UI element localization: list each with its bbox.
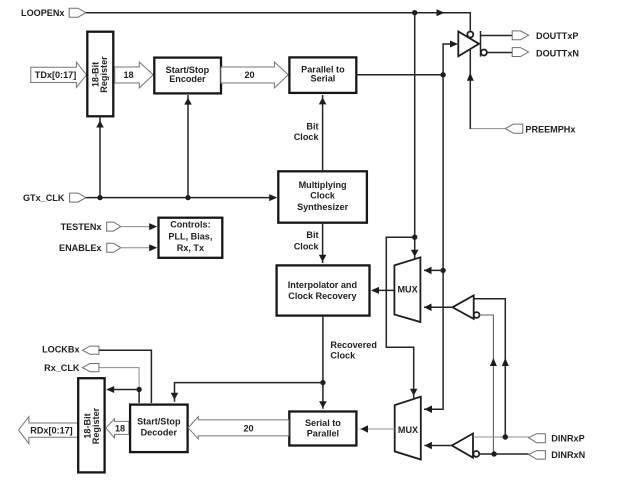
pin DOUTTxP bbox=[512, 31, 578, 41]
pin TESTENx bbox=[61, 222, 158, 232]
wire upper receiver output to mux bbox=[424, 304, 453, 312]
svg-text:Clock: Clock bbox=[294, 132, 320, 142]
wire recovered clock net bbox=[171, 317, 377, 409]
svg-text:DINRxP: DINRxP bbox=[551, 433, 584, 443]
wire DINRxN net bbox=[479, 451, 528, 456]
wire bit clock (MCS to interpolator) bbox=[294, 224, 327, 263]
svg-text:20: 20 bbox=[243, 423, 253, 433]
svg-text:Serial to: Serial to bbox=[305, 418, 341, 428]
svg-text:Parallel: Parallel bbox=[307, 429, 339, 439]
svg-text:LOCKBx: LOCKBx bbox=[42, 345, 79, 355]
pin DINRxP bbox=[529, 433, 585, 443]
wire upper mux output to interpolator bbox=[371, 287, 394, 294]
register R1 18-Bit Register (transmit) bbox=[87, 32, 113, 117]
svg-text:Bit: Bit bbox=[306, 230, 318, 240]
svg-text:ENABLEx: ENABLEx bbox=[59, 243, 101, 253]
wire DINRxN riser to upper receiver bbox=[480, 315, 497, 454]
svg-text:DINRxN: DINRxN bbox=[551, 450, 585, 460]
svg-text:Controls:: Controls: bbox=[170, 220, 210, 230]
wire lower mux output to serial-to-parallel bbox=[360, 425, 395, 433]
svg-text:Clock: Clock bbox=[294, 242, 320, 252]
receiver A3 (differential input receiver) bbox=[452, 434, 479, 458]
box U6 Serial to Parallel bbox=[289, 412, 356, 446]
wire LOCKBx to decoder bbox=[99, 350, 151, 403]
svg-text:Register: Register bbox=[99, 56, 109, 93]
svg-text:Serial: Serial bbox=[311, 74, 336, 84]
svg-text:Register: Register bbox=[91, 407, 101, 444]
svg-text:Interpolator and: Interpolator and bbox=[288, 280, 357, 290]
svg-text:DOUTTxP: DOUTTxP bbox=[536, 31, 578, 41]
pin Rx_CLK bbox=[44, 363, 99, 373]
pin TDx[0:17] bus arrow bbox=[31, 62, 87, 87]
pin DOUTTxN bbox=[512, 48, 579, 59]
svg-text:Clock: Clock bbox=[310, 191, 336, 201]
box U1 Start/Stop Encoder bbox=[154, 58, 221, 94]
svg-text:Start/Stop: Start/Stop bbox=[137, 417, 181, 427]
bus arrow 20 (serial-to-parallel to decoder) bbox=[188, 417, 289, 439]
pin LOOPENx bbox=[21, 8, 86, 18]
bus arrow 18 (register to encoder) bbox=[115, 62, 154, 88]
driver A1 (differential output driver) bbox=[458, 31, 487, 57]
svg-text:Clock: Clock bbox=[330, 351, 356, 361]
box U2 Parallel to Serial bbox=[289, 57, 356, 93]
wire PREEMPHx to driver bbox=[467, 50, 505, 129]
svg-text:Clock Recovery: Clock Recovery bbox=[288, 291, 357, 301]
svg-text:RDx[0:17]: RDx[0:17] bbox=[30, 426, 72, 436]
svg-text:Decoder: Decoder bbox=[141, 427, 178, 437]
svg-text:TDx[0:17]: TDx[0:17] bbox=[35, 70, 76, 80]
pin GTx_CLK bbox=[23, 193, 86, 203]
svg-text:18: 18 bbox=[123, 70, 133, 80]
pin PREEMPHx bbox=[505, 124, 575, 134]
box U7 Start/Stop Decoder bbox=[130, 405, 188, 453]
box U4 Controls: PLL, Bias, Rx, Tx bbox=[159, 218, 223, 258]
receiver A2 (upper loopback receiver) bbox=[453, 295, 480, 319]
svg-text:Rx_CLK: Rx_CLK bbox=[44, 363, 80, 373]
pin DINRxN bbox=[529, 450, 586, 460]
bus arrow 18 (decoder to register) bbox=[106, 419, 129, 438]
mux M2 (lower MUX) bbox=[395, 397, 421, 460]
box U3 Multiplying Clock Synthesizer bbox=[278, 171, 367, 222]
svg-text:Recovered: Recovered bbox=[330, 340, 377, 350]
svg-text:PREEMPHx: PREEMPHx bbox=[525, 124, 575, 134]
wire serial loopback net (P2S output to driver and muxes) bbox=[356, 41, 458, 414]
svg-text:20: 20 bbox=[244, 70, 254, 80]
svg-text:Multiplying: Multiplying bbox=[299, 180, 347, 190]
svg-text:MUX: MUX bbox=[397, 285, 417, 295]
svg-text:GTx_CLK: GTx_CLK bbox=[23, 193, 65, 203]
wire Rx_CLK / register clock net bbox=[99, 368, 142, 403]
svg-text:PLL, Bias,: PLL, Bias, bbox=[168, 231, 212, 241]
svg-text:Encoder: Encoder bbox=[169, 74, 206, 84]
svg-text:18: 18 bbox=[115, 423, 125, 433]
svg-text:TESTENx: TESTENx bbox=[61, 222, 102, 232]
svg-text:Bit: Bit bbox=[306, 122, 318, 132]
wire DOUTTxP bbox=[481, 35, 513, 37]
mux M1 (upper MUX) bbox=[394, 257, 420, 322]
pin ENABLEx bbox=[59, 243, 157, 253]
wire LOOPENx net bbox=[86, 9, 471, 30]
register R2 18-Bit Register (receive) bbox=[78, 378, 104, 472]
wire bit clock (MCS to parallel-to-serial) bbox=[294, 95, 327, 170]
box U5 Interpolator and Clock Recovery bbox=[277, 265, 370, 315]
svg-text:LOOPENx: LOOPENx bbox=[21, 8, 64, 18]
wire lower receiver output to mux bbox=[424, 442, 452, 450]
wire mux select net bbox=[386, 13, 418, 400]
svg-text:MUX: MUX bbox=[398, 425, 418, 435]
pin RDx[0:17] bus arrow bbox=[19, 417, 78, 444]
wire DOUTTxN bbox=[487, 52, 512, 54]
wire GTx_CLK net bbox=[86, 95, 277, 201]
wire DINRxP riser to upper receiver bbox=[474, 299, 509, 437]
svg-text:Synthesizer: Synthesizer bbox=[297, 202, 349, 212]
svg-text:Rx, Tx: Rx, Tx bbox=[177, 243, 204, 253]
wire DINRxP net bbox=[473, 434, 529, 439]
svg-text:DOUTTxN: DOUTTxN bbox=[536, 48, 579, 58]
bus arrow 20 (encoder to parallel-to-serial) bbox=[221, 62, 288, 88]
pin LOCKBx bbox=[42, 345, 99, 355]
